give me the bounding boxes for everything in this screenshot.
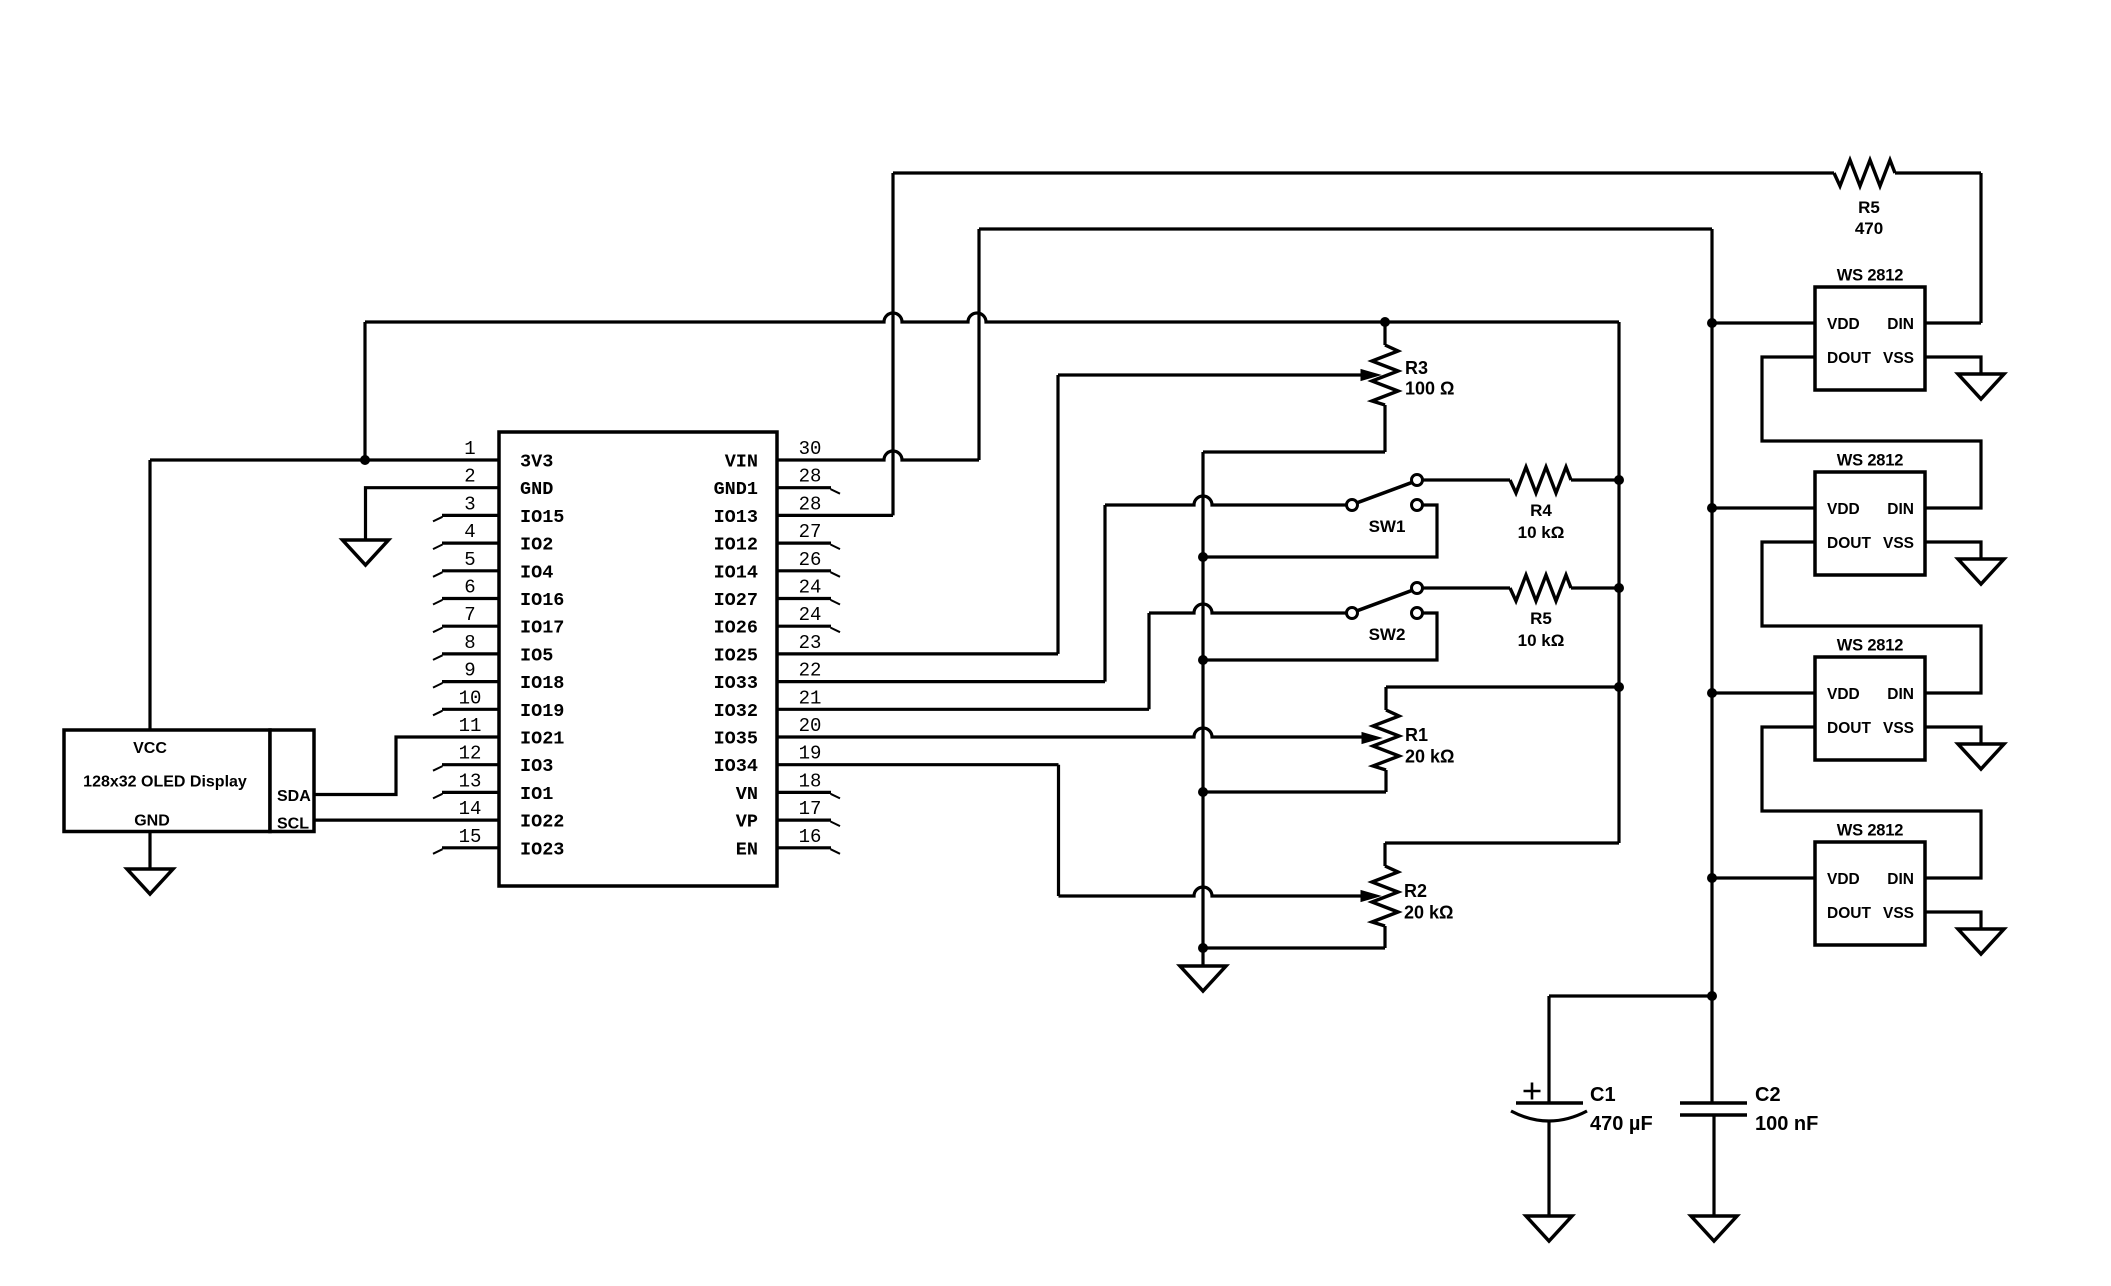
svg-text:IO26: IO26 (714, 618, 758, 639)
svg-text:VSS: VSS (1883, 720, 1914, 737)
svg-text:R4: R4 (1530, 501, 1552, 520)
ground WS2812 4 (1958, 929, 2004, 954)
svg-text:5: 5 (464, 549, 475, 571)
wire VIN to 5V rail (777, 229, 1712, 460)
pin 13 IO1 (left) (433, 770, 553, 805)
svg-text:13: 13 (459, 770, 482, 792)
svg-text:7: 7 (464, 604, 475, 626)
svg-text:IO2: IO2 (520, 535, 553, 556)
wire DOUT2 to DIN3 (1762, 542, 1981, 693)
potentiometer R2 (1372, 866, 1398, 926)
label WS 2812 (2) (1837, 452, 1903, 470)
WS2812 3 pin VDD (1827, 686, 1860, 703)
svg-text:4: 4 (464, 521, 475, 543)
wire R1 bottom to GND bus (1203, 770, 1386, 792)
svg-text:IO16: IO16 (520, 590, 564, 611)
resistor R5 (470) (1834, 160, 1895, 186)
wire VDD3 from 5V bus (1712, 691, 1815, 694)
WS2812 2 pin VDD (1827, 501, 1860, 518)
svg-text:470: 470 (1855, 219, 1883, 238)
pin 4 IO2 (left) (433, 521, 553, 556)
wire 5V VDD bus (1710, 229, 1713, 1103)
svg-text:128x32 OLED Display: 128x32 OLED Display (83, 774, 247, 791)
wire IO33 to SW1 pole (777, 496, 1347, 682)
wire R3 top stub (1383, 322, 1386, 345)
svg-text:VSS: VSS (1883, 905, 1914, 922)
svg-text:2: 2 (464, 466, 475, 488)
svg-text:R3: R3 (1405, 358, 1428, 378)
WS2812 2 pin DOUT (1827, 535, 1871, 552)
capacitor C2 (100nF) (1680, 1103, 1747, 1216)
ground below OLED (127, 869, 173, 894)
C1 plus sign (1524, 1083, 1541, 1100)
node junction 3V3 column (360, 455, 370, 465)
svg-text:IO34: IO34 (714, 756, 758, 777)
potentiometer R3 (1372, 345, 1398, 405)
WS2812 4 pin VDD (1827, 871, 1860, 888)
svg-text:C2: C2 (1755, 1084, 1781, 1106)
svg-text:21: 21 (799, 687, 822, 709)
wire VSS3 to ground (1925, 727, 1981, 744)
resistor R4 (10k) (1510, 467, 1571, 493)
svg-text:WS 2812: WS 2812 (1837, 637, 1903, 655)
wire VSS2 to ground (1925, 542, 1981, 559)
wire IO32 to SW2 pole (777, 604, 1347, 709)
WS2812 4 pin DIN (1887, 871, 1914, 888)
svg-text:GND: GND (134, 813, 170, 830)
svg-text:10: 10 (459, 687, 482, 709)
svg-text:26: 26 (799, 549, 822, 571)
label C2 (1755, 1084, 1781, 1106)
wire OLED GND stub (148, 832, 151, 870)
pin 9 IO18 (left) (433, 660, 564, 695)
label 20 kohm R2 (1404, 903, 1453, 923)
svg-text:WS 2812: WS 2812 (1837, 267, 1903, 285)
pin 26 IO14 (right) (714, 549, 840, 584)
WS2812 1 pin DOUT (1827, 350, 1871, 367)
resistor R5 (10k) lower (1510, 575, 1571, 601)
svg-text:DIN: DIN (1887, 871, 1914, 888)
svg-text:27: 27 (799, 521, 822, 543)
wire DIN1 entry (1925, 321, 1981, 324)
svg-text:VDD: VDD (1827, 686, 1860, 703)
switch SW1 (1347, 475, 1423, 511)
wire DOUT1 to DIN2 (1762, 357, 1981, 508)
svg-text:15: 15 (459, 826, 482, 848)
svg-text:14: 14 (459, 798, 482, 820)
label WS 2812 (4) (1837, 822, 1903, 840)
svg-text:DIN: DIN (1887, 501, 1914, 518)
node R1 3V3 junction (1614, 682, 1624, 692)
svg-text:WS 2812: WS 2812 (1837, 452, 1903, 470)
WS2812 1 pin VDD (1827, 316, 1860, 333)
svg-text:IO18: IO18 (520, 673, 564, 694)
wire R2 bottom to GND bus (1203, 926, 1385, 948)
pin 19 IO34 (right) (714, 743, 822, 778)
svg-text:3: 3 (464, 493, 475, 515)
svg-text:GND: GND (520, 479, 553, 500)
node VDD4 junction (1707, 873, 1717, 883)
svg-text:DIN: DIN (1887, 686, 1914, 703)
svg-text:IO4: IO4 (520, 562, 553, 583)
svg-text:WS 2812: WS 2812 (1837, 822, 1903, 840)
node R3 top junction (1380, 317, 1390, 327)
node VDD2 junction (1707, 503, 1717, 513)
svg-text:1: 1 (464, 438, 475, 460)
label WS 2812 (3) (1837, 637, 1903, 655)
wire DOUT3 to DIN4 (1762, 727, 1981, 878)
svg-text:10 kΩ: 10 kΩ (1518, 631, 1565, 650)
node SW2 gnd junction (1198, 655, 1208, 665)
svg-text:20: 20 (799, 715, 822, 737)
wire IO25 to R3 wiper (777, 375, 1361, 654)
svg-text:24: 24 (799, 577, 822, 599)
label 20 kohm R1 (1405, 747, 1454, 767)
pin 23 IO25 (right) (714, 632, 822, 667)
pin 24 IO26 (right) (714, 604, 840, 639)
ground WS2812 3 (1958, 744, 2004, 769)
pin 2 GND (left) (464, 466, 553, 501)
node SW1 gnd junction (1198, 552, 1208, 562)
svg-text:SW2: SW2 (1369, 625, 1406, 644)
svg-text:VDD: VDD (1827, 871, 1860, 888)
svg-text:23: 23 (799, 632, 822, 654)
svg-text:19: 19 (799, 743, 822, 765)
pin 11 IO21 (left) (459, 715, 565, 750)
pin 17 VP (right) (736, 798, 840, 833)
wire SW2 lower throw to GND (1203, 613, 1437, 660)
potentiometer R1 (1373, 710, 1399, 770)
svg-text:IO15: IO15 (520, 507, 564, 528)
capacitor C1 (470uF polarized) (1511, 1103, 1587, 1216)
label R2 (1404, 881, 1427, 901)
svg-text:EN: EN (736, 839, 758, 860)
wire 3V3 vertical bus (1617, 322, 1620, 843)
svg-text:R5: R5 (1530, 609, 1552, 628)
svg-text:IO27: IO27 (714, 590, 758, 611)
wire SW1 lower throw to GND (1203, 505, 1437, 557)
node VDD3 junction (1707, 688, 1717, 698)
wire SW1 throw to R4 (1423, 478, 1511, 481)
svg-text:SW1: SW1 (1369, 517, 1406, 536)
svg-text:IO25: IO25 (714, 645, 758, 666)
svg-text:VSS: VSS (1883, 535, 1914, 552)
label 10 kohm R5 (1518, 631, 1565, 650)
WS2812 1 pin VSS (1883, 350, 1914, 367)
svg-text:VP: VP (736, 812, 758, 833)
IC U1 ESP32 module body (499, 432, 777, 886)
WS2812 4 pin DOUT (1827, 905, 1871, 922)
ground middle bus (1180, 966, 1226, 991)
svg-text:DOUT: DOUT (1827, 905, 1871, 922)
svg-text:R5: R5 (1858, 198, 1880, 217)
pin 22 IO33 (right) (714, 660, 822, 695)
wire IO13 to R5 (777, 173, 1834, 515)
wire R5 to DIN1 (1895, 173, 1981, 323)
label 10 kohm R4 (1518, 523, 1565, 542)
R1 wiper arrow (1362, 733, 1381, 744)
label 470 uF (1590, 1113, 1653, 1135)
svg-text:VDD: VDD (1827, 501, 1860, 518)
svg-text:R1: R1 (1405, 725, 1428, 745)
svg-text:IO35: IO35 (714, 729, 758, 750)
svg-text:3V3: 3V3 (520, 452, 553, 473)
wire VDD2 from 5V bus (1712, 506, 1815, 509)
svg-text:28: 28 (799, 493, 822, 515)
wire VSS1 to ground (1925, 357, 1981, 374)
wire SDA to IO21 (314, 737, 499, 795)
svg-text:6: 6 (464, 577, 475, 599)
pin 28 IO13 (right) (714, 493, 822, 528)
svg-text:R2: R2 (1404, 881, 1427, 901)
svg-text:VN: VN (736, 784, 758, 805)
wire VDD1 from 5V bus (1712, 321, 1815, 324)
pin 30 VIN (right) (725, 438, 822, 473)
svg-text:11: 11 (459, 715, 482, 737)
node VDD1 junction (1707, 318, 1717, 328)
R3 wiper arrow (1361, 370, 1380, 381)
svg-text:VIN: VIN (725, 452, 758, 473)
svg-text:10 kΩ: 10 kΩ (1518, 523, 1565, 542)
svg-text:IO14: IO14 (714, 562, 758, 583)
svg-text:IO17: IO17 (520, 618, 564, 639)
wire 5V to C1 (1549, 996, 1712, 1103)
OLED pin SDA (277, 788, 311, 805)
pin 5 IO4 (left) (433, 549, 553, 584)
OLED label GND (134, 813, 170, 830)
ground WS2812 2 (1958, 559, 2004, 584)
WS2812 1 pin DIN (1887, 316, 1914, 333)
WS2812 LED2 body (1815, 472, 1925, 575)
pin 28 GND1 (right) (714, 466, 840, 501)
node R1 gnd junction (1198, 787, 1208, 797)
svg-text:SDA: SDA (277, 788, 311, 805)
label R3 (1405, 358, 1428, 378)
WS2812 2 pin VSS (1883, 535, 1914, 552)
label SW2 (1369, 625, 1406, 644)
svg-text:SCL: SCL (277, 816, 309, 833)
svg-text:IO32: IO32 (714, 701, 758, 722)
wire 3V3 rail (365, 313, 1619, 322)
pin 14 IO22 (left) (459, 798, 565, 833)
ground C1 (1526, 1216, 1572, 1241)
wire R3 bottom to GND bus (1203, 405, 1385, 452)
wire R1 top to 3V3 bus (1386, 687, 1619, 710)
svg-text:IO3: IO3 (520, 756, 553, 777)
label R1 (1405, 725, 1428, 745)
WS2812 LED1 body (1815, 287, 1925, 390)
svg-text:100 nF: 100 nF (1755, 1113, 1818, 1135)
svg-text:30: 30 (799, 438, 822, 460)
ground WS2812 1 (1958, 374, 2004, 399)
WS2812 2 pin DIN (1887, 501, 1914, 518)
svg-text:DIN: DIN (1887, 316, 1914, 333)
svg-text:C1: C1 (1590, 1084, 1616, 1106)
OLED label 128x32 OLED Display (83, 774, 247, 791)
WS2812 4 pin VSS (1883, 905, 1914, 922)
label R5 (1858, 198, 1880, 217)
svg-text:12: 12 (459, 743, 482, 765)
svg-text:IO19: IO19 (520, 701, 564, 722)
node R4 3V3 junction (1614, 475, 1624, 485)
pin 16 EN (right) (736, 826, 840, 861)
svg-text:470 µF: 470 µF (1590, 1113, 1653, 1135)
svg-text:VDD: VDD (1827, 316, 1860, 333)
switch SW2 (1347, 583, 1423, 619)
WS2812 3 pin VSS (1883, 720, 1914, 737)
OLED pin SCL (277, 816, 309, 833)
svg-text:28: 28 (799, 466, 822, 488)
pin 18 VN (right) (736, 770, 840, 805)
ground C2 (1691, 1216, 1737, 1241)
WS2812 3 pin DOUT (1827, 720, 1871, 737)
svg-text:IO22: IO22 (520, 812, 564, 833)
svg-text:9: 9 (464, 660, 475, 682)
wire 3V3 pin1 to OLED VCC (150, 460, 499, 730)
node 5V to caps junction (1707, 991, 1717, 1001)
svg-text:20 kΩ: 20 kΩ (1404, 903, 1453, 923)
node R2 gnd junction (1198, 943, 1208, 953)
wire VSS4 to ground (1925, 912, 1981, 929)
label R4 (1530, 501, 1552, 520)
label C1 (1590, 1084, 1616, 1106)
wire middle GND bus (1201, 452, 1204, 966)
svg-text:VCC: VCC (133, 740, 167, 757)
svg-text:8: 8 (464, 632, 475, 654)
wire IO35 to R1 wiper (777, 728, 1362, 737)
wire 3V3 riser (363, 322, 366, 460)
wire R2 top to 3V3 bus (1385, 843, 1619, 866)
OLED label VCC (133, 740, 167, 757)
pin 7 IO17 (left) (433, 604, 564, 639)
svg-text:IO21: IO21 (520, 729, 564, 750)
svg-text:100 Ω: 100 Ω (1405, 379, 1454, 399)
wire SW2 throw to R5b (1423, 586, 1511, 589)
svg-text:DOUT: DOUT (1827, 720, 1871, 737)
svg-text:IO1: IO1 (520, 784, 553, 805)
svg-text:18: 18 (799, 770, 822, 792)
label 470 (1855, 219, 1883, 238)
OLED display U2 body (64, 730, 314, 832)
node R5b 3V3 junction (1614, 583, 1624, 593)
wire R4 to 3V3 bus (1571, 478, 1619, 481)
svg-text:DOUT: DOUT (1827, 535, 1871, 552)
label 100 nF (1755, 1113, 1818, 1135)
svg-text:17: 17 (799, 798, 822, 820)
pin 10 IO19 (left) (433, 687, 564, 722)
WS2812 LED4 body (1815, 842, 1925, 945)
label 100 ohm (1405, 379, 1454, 399)
svg-text:IO5: IO5 (520, 645, 553, 666)
R2 wiper arrow (1361, 891, 1380, 902)
wire SCL to IO22 (314, 818, 499, 821)
label WS 2812 (1) (1837, 267, 1903, 285)
pin 15 IO23 (left) (433, 826, 564, 861)
ground below pin 2 (343, 540, 389, 565)
svg-text:DOUT: DOUT (1827, 350, 1871, 367)
wire R5b to 3V3 bus (1571, 586, 1619, 589)
svg-text:IO13: IO13 (714, 507, 758, 528)
pin 24 IO27 (right) (714, 577, 840, 612)
WS2812 LED3 body (1815, 657, 1925, 760)
pin 3 IO15 (left) (433, 493, 564, 528)
wire pin2 GND (366, 488, 500, 540)
svg-text:VSS: VSS (1883, 350, 1914, 367)
pin 6 IO16 (left) (433, 577, 564, 612)
svg-text:22: 22 (799, 660, 822, 682)
svg-text:IO23: IO23 (520, 839, 564, 860)
label SW1 (1369, 517, 1406, 536)
wire IO34 to R2 wiper (777, 765, 1361, 896)
svg-text:GND1: GND1 (714, 479, 758, 500)
pin 20 IO35 (right) (714, 715, 822, 750)
svg-text:16: 16 (799, 826, 822, 848)
pin 12 IO3 (left) (433, 743, 553, 778)
pin 21 IO32 (right) (714, 687, 822, 722)
svg-text:IO33: IO33 (714, 673, 758, 694)
wire VDD4 from 5V bus (1712, 876, 1815, 879)
label R5 lower (1530, 609, 1552, 628)
WS2812 3 pin DIN (1887, 686, 1914, 703)
svg-text:24: 24 (799, 604, 822, 626)
pin 27 IO12 (right) (714, 521, 840, 556)
pin 1 3V3 (left) (464, 438, 553, 473)
svg-text:20 kΩ: 20 kΩ (1405, 747, 1454, 767)
pin 8 IO5 (left) (433, 632, 553, 667)
svg-text:IO12: IO12 (714, 535, 758, 556)
